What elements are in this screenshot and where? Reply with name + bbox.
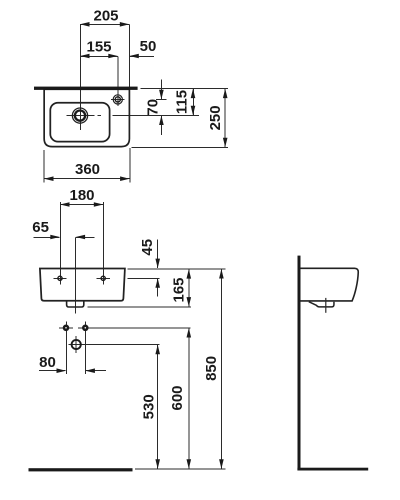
svg-text:45: 45 bbox=[139, 239, 156, 256]
svg-text:205: 205 bbox=[93, 7, 118, 24]
svg-text:70: 70 bbox=[144, 99, 161, 116]
svg-text:180: 180 bbox=[69, 187, 94, 204]
svg-text:50: 50 bbox=[140, 38, 157, 55]
svg-text:155: 155 bbox=[86, 38, 111, 55]
svg-text:250: 250 bbox=[207, 105, 224, 130]
svg-text:80: 80 bbox=[39, 354, 56, 371]
svg-text:360: 360 bbox=[75, 161, 100, 178]
svg-text:65: 65 bbox=[32, 219, 49, 236]
svg-text:115: 115 bbox=[174, 90, 191, 114]
svg-text:165: 165 bbox=[171, 277, 188, 302]
svg-text:600: 600 bbox=[169, 385, 186, 410]
svg-text:530: 530 bbox=[140, 394, 157, 419]
svg-text:850: 850 bbox=[203, 356, 220, 381]
